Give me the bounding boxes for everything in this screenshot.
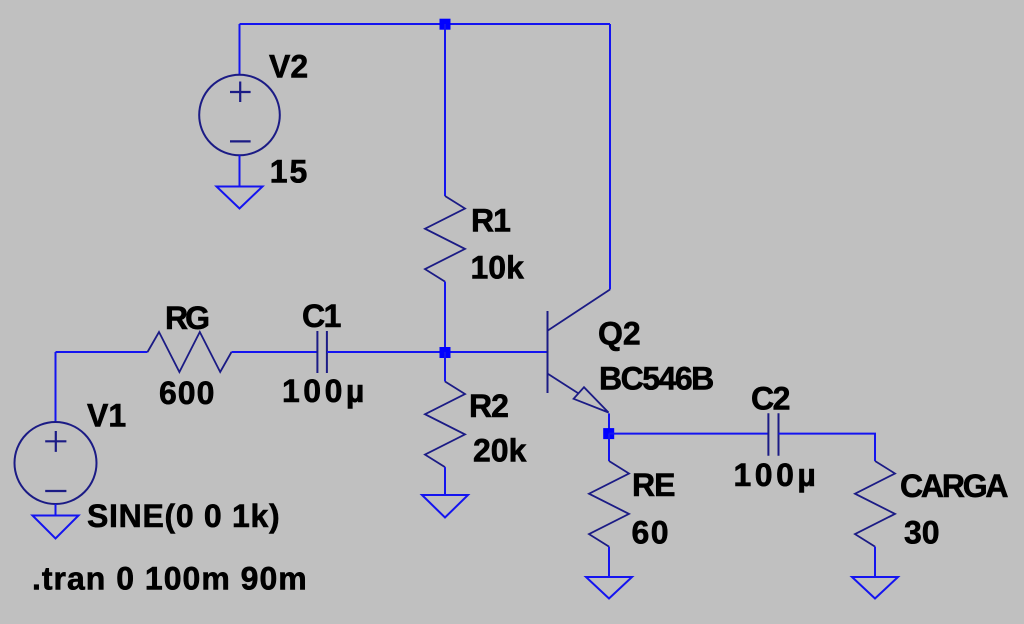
capacitor C2 bbox=[768, 413, 778, 456]
wire V1 bottom lead bbox=[55, 504, 57, 516]
svg-text:C1: C1 bbox=[302, 298, 341, 334]
wire mid rail left (V1 corner to RG) bbox=[56, 351, 148, 353]
wire R1 bottom lead bbox=[444, 282, 446, 352]
voltage source V1 circle bbox=[15, 422, 97, 504]
node junction emitter / RE / C2 bbox=[603, 428, 614, 439]
wire R1 top lead bbox=[444, 24, 446, 196]
svg-text:30: 30 bbox=[904, 515, 940, 551]
wire V2 bottom lead bbox=[239, 155, 241, 186]
wire collector vertical from top rail bbox=[609, 24, 611, 290]
svg-text:RG: RG bbox=[165, 300, 208, 336]
svg-text:RE: RE bbox=[632, 467, 675, 503]
ground below R2 bbox=[422, 495, 468, 518]
node junction top rail / R1 bbox=[440, 19, 451, 30]
svg-text:CARGA: CARGA bbox=[900, 468, 1008, 504]
voltage source V2 circle bbox=[199, 75, 280, 156]
svg-text:R1: R1 bbox=[471, 203, 510, 239]
resistor RE bbox=[589, 461, 629, 547]
ground below V2 bbox=[217, 187, 263, 209]
resistor R1 bbox=[425, 196, 465, 282]
wire R2 bottom lead bbox=[444, 467, 446, 495]
wire CARGA bottom lead bbox=[874, 547, 876, 577]
svg-text:R2: R2 bbox=[469, 388, 508, 424]
node junction mid rail / R2 bbox=[440, 347, 451, 358]
svg-text:C2: C2 bbox=[751, 380, 790, 416]
svg-text:10k: 10k bbox=[471, 250, 525, 286]
svg-text:20k: 20k bbox=[473, 433, 527, 469]
wire R2 top lead bbox=[444, 352, 446, 382]
transistor Q2 collector diagonal bbox=[548, 290, 610, 331]
ground below CARGA bbox=[852, 577, 898, 599]
svg-text:100µ: 100µ bbox=[734, 457, 820, 493]
V1 plus sign bbox=[45, 431, 66, 452]
V1 minus sign bbox=[45, 490, 66, 492]
svg-text:V1: V1 bbox=[87, 397, 126, 433]
resistor CARGA bbox=[855, 461, 895, 547]
svg-text:Q2: Q2 bbox=[598, 316, 641, 352]
wire V2 top lead bbox=[239, 24, 241, 75]
svg-text:15: 15 bbox=[270, 153, 310, 189]
V2 minus sign bbox=[230, 140, 251, 142]
svg-text:60: 60 bbox=[632, 515, 671, 551]
wire emitter rail to C2 bbox=[609, 433, 768, 435]
svg-text:600: 600 bbox=[159, 375, 215, 411]
wire C2 to CARGA corner bbox=[779, 434, 876, 461]
wire RG to C1 bbox=[232, 351, 318, 353]
wire C1 to base (through R2 junction) bbox=[327, 351, 547, 353]
transistor Q2 emitter arrow bbox=[574, 387, 609, 412]
wire RE bottom lead bbox=[608, 547, 610, 577]
ground below V1 bbox=[33, 516, 79, 539]
resistor RG bbox=[148, 332, 232, 372]
transistor Q2 emitter diagonal bbox=[548, 374, 578, 394]
capacitor C1 bbox=[317, 331, 327, 373]
ground below RE bbox=[586, 577, 632, 599]
svg-text:100µ: 100µ bbox=[282, 373, 368, 409]
resistor R2 bbox=[425, 382, 465, 468]
V2 plus sign bbox=[230, 82, 251, 103]
svg-text:SINE(0 0 1k): SINE(0 0 1k) bbox=[87, 498, 280, 534]
wire emitter to junction bbox=[608, 413, 610, 433]
transistor Q2 base bar bbox=[547, 311, 549, 393]
wire top rail from V2 to R1 junction to collector corner bbox=[240, 23, 611, 25]
wire V1 top lead (corner from mid rail) bbox=[55, 352, 57, 422]
svg-text:BC546B: BC546B bbox=[599, 360, 713, 396]
svg-text:.tran 0 100m 90m: .tran 0 100m 90m bbox=[32, 560, 308, 596]
svg-text:V2: V2 bbox=[269, 49, 308, 85]
wire RE top lead bbox=[608, 434, 610, 461]
